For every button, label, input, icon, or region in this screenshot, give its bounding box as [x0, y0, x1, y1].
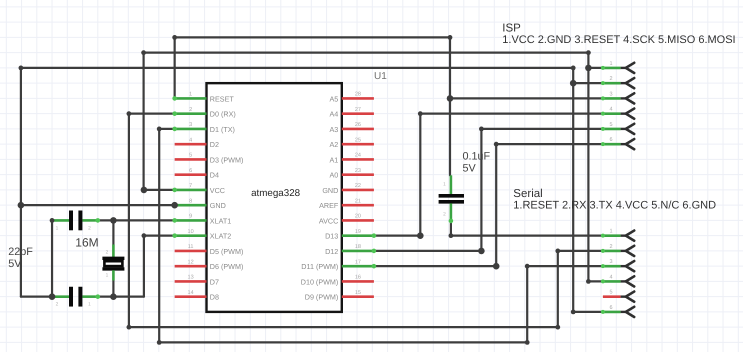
wire GND net: left rail up, across top, down right side: [21, 68, 573, 312]
svg-text:2: 2: [189, 107, 192, 113]
wire bendpoint: [494, 142, 499, 147]
svg-text:2: 2: [88, 225, 91, 231]
svg-text:D1 (TX): D1 (TX): [210, 125, 235, 134]
U1 pin 11 D5 (PWM) leg: [175, 244, 244, 256]
svg-text:12: 12: [188, 259, 194, 265]
svg-text:ISP: ISP: [502, 23, 521, 35]
header Serial pin 4: [601, 274, 634, 286]
svg-text:20: 20: [355, 214, 361, 220]
svg-text:4: 4: [609, 107, 612, 113]
svg-text:14: 14: [188, 290, 194, 296]
U1 pin 14 D8 leg: [175, 290, 219, 302]
svg-text:A0: A0: [330, 171, 339, 180]
svg-text:1.VCC 2.GND 3.RESET 4.SCK 5.MI: 1.VCC 2.GND 3.RESET 4.SCK 5.MISO 6.MOSI: [502, 34, 735, 46]
wire bendpoint: [50, 218, 55, 223]
wire XTAL2 net: capacitor C2 right lead to corner: [98, 296, 144, 298]
wire GND net: left rail to U1 pin8 GND leg: [21, 204, 175, 206]
svg-text:24: 24: [355, 153, 361, 159]
wire VCC net: junction to ISP pin1: [588, 67, 603, 69]
svg-text:2: 2: [609, 244, 612, 250]
wire bendpoint: [172, 35, 177, 40]
wire bendpoint: [586, 279, 591, 284]
svg-text:5: 5: [189, 153, 192, 159]
U1 pin 16 D10 (PWM) leg: [301, 275, 374, 287]
U1 pin 8 GND leg: [172, 198, 225, 210]
header ISP pin 2: [601, 76, 634, 88]
wire TX net: U1 D1 down, along bottom, up to Serial pin3: [159, 129, 603, 343]
svg-text:D4: D4: [210, 171, 219, 180]
U1 pin 17 D11 (PWM) leg: [301, 259, 376, 271]
wire MOSI net: ISP pin6 left, down to U1 D11: [374, 144, 603, 266]
wire bendpoint: [141, 50, 146, 55]
wire bendpoint: [555, 325, 560, 330]
wire GND net: corner to Serial pin6: [573, 311, 603, 313]
capacitor C2 22pF (bottom): [52, 287, 100, 308]
value label 0.1uF 5V: [463, 151, 491, 175]
svg-text:15: 15: [355, 290, 361, 296]
U1 pin 7 VCC leg: [172, 183, 225, 195]
U1 pin 9 XLAT1 leg: [172, 214, 231, 226]
U1 pin 18 D12 leg: [325, 244, 376, 256]
svg-text:5V: 5V: [463, 163, 477, 175]
svg-text:6: 6: [609, 305, 612, 311]
svg-text:atmega328: atmega328: [251, 188, 301, 199]
svg-text:4: 4: [609, 274, 612, 280]
svg-text:0.1uF: 0.1uF: [463, 151, 491, 163]
svg-text:2: 2: [56, 302, 59, 308]
U1 pin 25 A2 leg: [330, 137, 374, 149]
svg-text:11: 11: [188, 244, 194, 250]
svg-text:1: 1: [88, 302, 91, 308]
header Serial pin 2: [601, 244, 634, 256]
junction: [18, 202, 25, 209]
wire bendpoint: [525, 264, 530, 269]
svg-text:6: 6: [189, 168, 192, 174]
wire bendpoint: [586, 50, 591, 55]
wire bendpoint: [479, 126, 484, 131]
svg-text:A5: A5: [330, 94, 339, 103]
svg-text:25: 25: [355, 137, 361, 143]
svg-text:U1: U1: [374, 71, 387, 82]
wire bendpoint: [19, 66, 24, 71]
U1 pin 15 D9 (PWM) leg: [305, 290, 374, 302]
svg-text:D10 (PWM): D10 (PWM): [301, 277, 339, 286]
svg-text:D0 (RX): D0 (RX): [210, 110, 236, 119]
svg-text:VCC: VCC: [210, 186, 225, 195]
svg-text:AREF: AREF: [319, 201, 339, 210]
svg-text:13: 13: [188, 275, 194, 281]
capacitor C1 22pF (top): [52, 211, 100, 232]
svg-text:D5 (PWM): D5 (PWM): [210, 247, 244, 256]
header ISP pin 3: [601, 91, 634, 103]
U1 pin 13 D7 leg: [175, 275, 219, 287]
U1 pin 23 A0 leg: [330, 168, 374, 180]
U1 pin 21 AREF leg: [319, 198, 374, 210]
svg-text:D3 (PWM): D3 (PWM): [210, 155, 244, 164]
svg-text:22pF: 22pF: [8, 246, 33, 258]
svg-text:D11 (PWM): D11 (PWM): [301, 262, 338, 271]
svg-text:1: 1: [56, 225, 59, 231]
svg-text:28: 28: [355, 92, 361, 98]
U1 pin 28 A5 leg: [330, 92, 374, 104]
wire bendpoint: [157, 340, 162, 345]
svg-text:D12: D12: [325, 247, 338, 256]
junction: [417, 232, 424, 239]
svg-text:A3: A3: [330, 125, 339, 134]
svg-text:D6 (PWM): D6 (PWM): [210, 262, 244, 271]
wire MISO net: ISP pin5 left, down to U1 D12: [374, 129, 603, 251]
svg-text:D9 (PWM): D9 (PWM): [305, 293, 339, 302]
wire RESET net: U1 pin1 up and over to ISP pin3 junction: [175, 37, 450, 98]
U1 pin 5 D3 (PWM) leg: [175, 153, 244, 165]
svg-text:1: 1: [609, 229, 612, 235]
svg-text:10: 10: [188, 229, 194, 235]
svg-text:19: 19: [355, 229, 361, 235]
junction: [570, 80, 577, 87]
wire RESET net: junction to ISP pin3: [450, 97, 603, 99]
svg-text:17: 17: [355, 259, 361, 265]
header ISP labels: [502, 23, 735, 47]
svg-text:A4: A4: [330, 110, 339, 119]
svg-text:23: 23: [355, 168, 361, 174]
header Serial pin 1: [601, 229, 634, 241]
wire bendpoint: [448, 35, 453, 40]
wire XTAL2 net: U1 XLAT2 left and down: [144, 236, 175, 297]
U1 pin 26 A3 leg: [330, 122, 374, 134]
svg-text:A2: A2: [330, 140, 339, 149]
junction: [110, 217, 117, 224]
svg-text:1.RESET 2.RX 3.TX 4.VCC 5.N/C: 1.RESET 2.RX 3.TX 4.VCC 5.N/C 6.GND: [513, 200, 716, 212]
svg-text:XLAT2: XLAT2: [210, 232, 231, 241]
junction: [478, 248, 485, 255]
wire RESET net: junction down to capacitor C3 top lead: [449, 98, 451, 175]
svg-text:D8: D8: [210, 293, 219, 302]
header Serial pin 5: [603, 290, 634, 302]
wire GND net: left rail to capacitor C2 left lead: [21, 296, 52, 298]
U1 pin 27 A4 leg: [330, 107, 374, 119]
svg-text:GND: GND: [210, 201, 226, 210]
wire bendpoint: [571, 66, 576, 71]
svg-text:RESET: RESET: [210, 94, 235, 103]
U1 pin 20 AVCC leg: [319, 214, 374, 226]
value label 22pF 5V: [8, 246, 33, 270]
wire bendpoint: [555, 249, 560, 254]
wire bendpoint: [126, 111, 131, 116]
wire VCC net: U1 VCC up, across top, down to Serial pin4: [144, 53, 589, 282]
svg-text:A1: A1: [330, 155, 339, 164]
svg-text:2: 2: [443, 212, 446, 218]
wire RX net: U1 D0 down, along bottom, up to Serial pin2: [129, 114, 603, 328]
svg-text:1: 1: [106, 273, 109, 279]
wire GND net: capacitor C1 left lead down to bottom row: [51, 220, 53, 296]
U1 pin 19 D13 leg: [325, 229, 376, 241]
svg-text:D13: D13: [325, 232, 338, 241]
U1 pin 1 RESET leg: [172, 92, 234, 104]
svg-text:16: 16: [355, 275, 361, 281]
svg-text:18: 18: [355, 244, 361, 250]
U1 pin 22 GND leg: [322, 183, 374, 195]
svg-text:5: 5: [609, 122, 612, 128]
U1 pin 12 D6 (PWM) leg: [175, 259, 244, 271]
header Serial pin 6: [601, 305, 634, 317]
junction: [493, 263, 500, 270]
wire bendpoint: [157, 126, 162, 131]
wire bendpoint: [449, 233, 454, 238]
svg-text:D7: D7: [210, 277, 219, 286]
junction: [49, 293, 56, 300]
svg-text:5V: 5V: [8, 258, 22, 270]
svg-text:GND: GND: [322, 186, 338, 195]
U1 pin 24 A1 leg: [330, 153, 374, 165]
wire GND net: junction to ISP pin2: [573, 82, 603, 84]
wire DTR net: capacitor C3 bottom lead to Serial pin1: [451, 220, 603, 235]
svg-text:2: 2: [106, 250, 109, 256]
header ISP pin 4: [601, 107, 634, 119]
U1 pin 4 D2 leg: [175, 137, 219, 149]
svg-text:1: 1: [189, 92, 192, 98]
wire SCK net: ISP pin4 left, down to U1 D13: [374, 114, 603, 236]
svg-text:22: 22: [355, 183, 361, 189]
svg-text:D2: D2: [210, 140, 219, 149]
svg-text:26: 26: [355, 122, 361, 128]
wire bendpoint: [525, 340, 530, 345]
header ISP pin 6: [601, 137, 634, 149]
wire bendpoint: [418, 111, 423, 116]
svg-text:16M: 16M: [75, 235, 98, 249]
wire bendpoint: [142, 233, 147, 238]
IC U1 atmega328 body: [207, 83, 342, 312]
wire VCC net: corner to Serial pin4: [588, 280, 603, 282]
svg-text:3: 3: [609, 259, 612, 265]
U1 pin 2 D0 (RX) leg: [172, 107, 235, 119]
header ISP pin 1: [601, 61, 634, 73]
svg-text:AVCC: AVCC: [319, 216, 338, 225]
header ISP pin 5: [601, 122, 634, 134]
svg-text:8: 8: [189, 198, 192, 204]
junction: [141, 187, 148, 194]
svg-text:Serial: Serial: [513, 188, 542, 200]
svg-text:2: 2: [609, 76, 612, 82]
wire bendpoint: [571, 310, 576, 315]
header Serial labels: [513, 188, 716, 212]
svg-text:3: 3: [609, 91, 612, 97]
svg-text:7: 7: [189, 183, 192, 189]
crystal Y1 16M: [102, 220, 124, 296]
header Serial pin 3: [601, 259, 634, 271]
svg-text:6: 6: [609, 137, 612, 143]
junction: [585, 65, 592, 72]
svg-text:4: 4: [189, 137, 192, 143]
svg-text:21: 21: [355, 198, 361, 204]
svg-text:3: 3: [189, 122, 192, 128]
U1 pin 6 D4 leg: [175, 168, 219, 180]
svg-text:5: 5: [609, 290, 612, 296]
svg-text:XLAT1: XLAT1: [210, 216, 231, 225]
wire VCC net: corner to U1 pin7 leg: [144, 189, 175, 191]
wire XTAL1 net: capacitor C1 right lead to U1 XLAT1 leg: [98, 219, 175, 221]
U1 pin 10 XLAT2 leg: [172, 229, 231, 241]
svg-text:9: 9: [189, 214, 192, 220]
svg-text:27: 27: [355, 107, 361, 113]
junction: [110, 293, 117, 300]
junction: [171, 202, 178, 209]
junction: [447, 95, 454, 102]
wire bendpoint: [126, 325, 131, 330]
capacitor C3 0.1uF: [439, 175, 464, 223]
svg-text:1: 1: [609, 61, 612, 67]
svg-text:1: 1: [443, 182, 446, 188]
U1 pin 3 D1 (TX) leg: [172, 122, 235, 134]
